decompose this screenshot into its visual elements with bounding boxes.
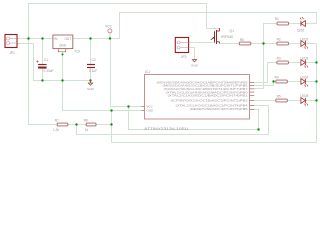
wire LED3 to return rail	[306, 62, 317, 64]
svg-text:(XTAL2/CLKO/KDC1/BADC2/PCINT4): (XTAL2/CLKO/KDC1/BADC2/PCINT4)PB1	[168, 94, 248, 98]
regulator IC3	[53, 35, 73, 49]
wire C2 bottom to ground rail	[90, 68, 92, 81]
svg-text:R8: R8	[84, 119, 88, 123]
wire LED1 to VCC rail corner	[306, 23, 317, 25]
svg-text:LED1: LED1	[297, 28, 305, 32]
transistor Q1 IRF540	[215, 30, 217, 44]
wire JP2 bottom pin to GND symbol	[189, 48, 195, 60]
junction LED4 return	[315, 80, 317, 82]
svg-text:C1: C1	[44, 58, 48, 62]
ground symbol under JP2	[192, 60, 196, 62]
ic IC1 ATTINY2313	[145, 75, 250, 120]
svg-text:R2: R2	[277, 38, 281, 42]
connector JP2	[175, 38, 188, 53]
junction VCC pin loop	[127, 105, 129, 107]
junction LED3 return	[315, 61, 317, 63]
svg-text:IC3: IC3	[75, 50, 80, 54]
regulator GND pin bracket	[58, 49, 65, 52]
svg-text:VCC: VCC	[105, 25, 112, 29]
wire regulator GND pin down to ground rail	[62, 52, 64, 80]
wire C1 top to IN net	[42, 39, 44, 65]
junction R8 to GND vertical	[110, 123, 112, 125]
svg-text:R1: R1	[275, 17, 279, 21]
junction lower loop	[257, 128, 259, 130]
pin stubs right side	[250, 83, 255, 110]
wire bottom rail to LED return rail	[112, 44, 317, 143]
wire R1 to LED1	[289, 23, 301, 25]
svg-text:JP2: JP2	[181, 55, 187, 59]
LED3	[301, 60, 306, 66]
wire JP1 bottom pin down to ground rail	[17, 44, 90, 81]
svg-text:R4: R4	[275, 76, 279, 80]
wire LED2 to return rail	[306, 43, 317, 45]
junction C1 top	[41, 37, 43, 39]
capacitor C2	[87, 64, 95, 66]
svg-text:0.33uF: 0.33uF	[44, 69, 54, 73]
junction IC GND wire	[110, 109, 112, 111]
wire R7 to R8	[68, 124, 86, 126]
LED1 (mirrored)	[301, 21, 306, 27]
svg-text:LED5: LED5	[300, 94, 308, 98]
wire IC pin2 to R4	[254, 82, 275, 86]
wire JP1 top pin to regulator IN	[17, 38, 53, 40]
wire Q1 source to R6	[220, 43, 239, 45]
svg-text:R7: R7	[55, 119, 59, 123]
resistor R4	[276, 80, 288, 83]
wire R2 to LED2	[288, 43, 300, 45]
wire LED4 to return rail	[306, 81, 317, 83]
supply VCC symbol	[108, 29, 112, 33]
svg-text:R3: R3	[277, 57, 281, 61]
wire divider feed from raw input	[29, 39, 58, 125]
junction R6 R2 node	[262, 42, 264, 44]
wire divider tap down and right to IC pin	[77, 106, 269, 135]
wire IC pin6 to R5	[254, 100, 275, 102]
svg-text:GND: GND	[59, 43, 67, 47]
pin name texts	[157, 80, 248, 111]
wire R6 to junction and R2	[250, 43, 277, 45]
wire IC pin1 to R3	[254, 63, 277, 83]
svg-text:R5: R5	[277, 94, 281, 98]
wire R3 to LED3	[288, 62, 300, 64]
connector JP1	[5, 35, 17, 48]
wire ground rail drop to IC1 GND pin	[63, 81, 142, 111]
resistor R8	[86, 123, 96, 126]
wire top rail A (raw input)	[29, 4, 220, 39]
LED5	[301, 98, 306, 104]
LED4	[301, 79, 306, 85]
svg-text:GND: GND	[147, 109, 155, 113]
svg-text:OUT: OUT	[64, 37, 71, 41]
LED2	[301, 41, 306, 47]
junction C1 ground	[41, 79, 43, 81]
junction VCC	[109, 37, 111, 39]
junction C2 ground	[89, 79, 91, 81]
pin GND stub	[141, 110, 144, 112]
ground symbol under C2	[90, 81, 92, 84]
svg-text:JP1: JP1	[9, 51, 15, 55]
pin VCC stub	[141, 106, 144, 108]
wire VCC drop to IC1 VCC pin	[111, 39, 142, 107]
svg-text:LED4: LED4	[300, 75, 308, 79]
svg-text:1.2k: 1.2k	[53, 128, 59, 132]
resistor R2	[277, 42, 289, 45]
capacitor C1 (polarized)	[38, 64, 47, 66]
resistor R6	[239, 42, 251, 45]
junction regulator GND pin	[61, 53, 63, 55]
junction C2 top	[89, 37, 91, 39]
wire LED5 to return rail	[306, 100, 317, 102]
wire regulator OUT to VCC corner	[73, 38, 120, 40]
svg-text:(RESET/dW/ADC3/PCINT5)PB5: (RESET/dW/ADC3/PCINT5)PB5	[190, 107, 248, 111]
svg-text:R6: R6	[240, 38, 244, 42]
resistor R7	[57, 123, 68, 126]
resistor R1	[277, 22, 289, 25]
junction R7 R8 divider tap	[75, 123, 77, 125]
svg-text:ATTINY2313V-10SU: ATTINY2313V-10SU	[144, 127, 188, 131]
junction R4 row	[272, 80, 274, 82]
resistor R3	[277, 61, 289, 64]
wire R4 to LED4	[287, 81, 300, 83]
svg-text:0.1uF: 0.1uF	[89, 69, 97, 73]
wire lower IC pin loop to VCC pin wire	[129, 107, 259, 130]
wire C2 top to OUT net	[90, 39, 92, 65]
wire top rail B (VCC distribution)	[120, 13, 317, 39]
wire R8 to GND vertical	[96, 124, 112, 126]
wire IC pin3 to vertical	[254, 88, 263, 90]
svg-text:Q1: Q1	[230, 29, 235, 33]
svg-text:LED2: LED2	[300, 37, 308, 41]
wire R5 to LED5	[287, 100, 300, 102]
wire VCC symbol stub	[109, 33, 111, 39]
svg-text:IRF540: IRF540	[221, 35, 233, 39]
svg-text:GND: GND	[87, 87, 95, 91]
wire JP2 top pin to Q1 gate	[189, 42, 214, 44]
wire LED chain vertical x263	[264, 24, 278, 89]
svg-text:(ICP/INT0/XCK/OC1B/ADC3/PCINT2: (ICP/INT0/XCK/OC1B/ADC3/PCINT2)PB2	[171, 98, 248, 102]
svg-text:C2: C2	[92, 58, 96, 62]
junction reg GND rail	[61, 79, 63, 81]
wire GND vertical to bottom rail	[111, 111, 113, 143]
wire C1 bottom to ground rail	[42, 69, 44, 81]
svg-text:LED3: LED3	[300, 56, 308, 60]
svg-text:GND: GND	[191, 63, 199, 67]
junction LED5 return	[315, 99, 317, 101]
junction JP1 top rail	[27, 37, 29, 39]
svg-text:1k: 1k	[85, 128, 89, 132]
svg-text:IC1: IC1	[145, 70, 150, 74]
resistor R5	[276, 99, 288, 102]
